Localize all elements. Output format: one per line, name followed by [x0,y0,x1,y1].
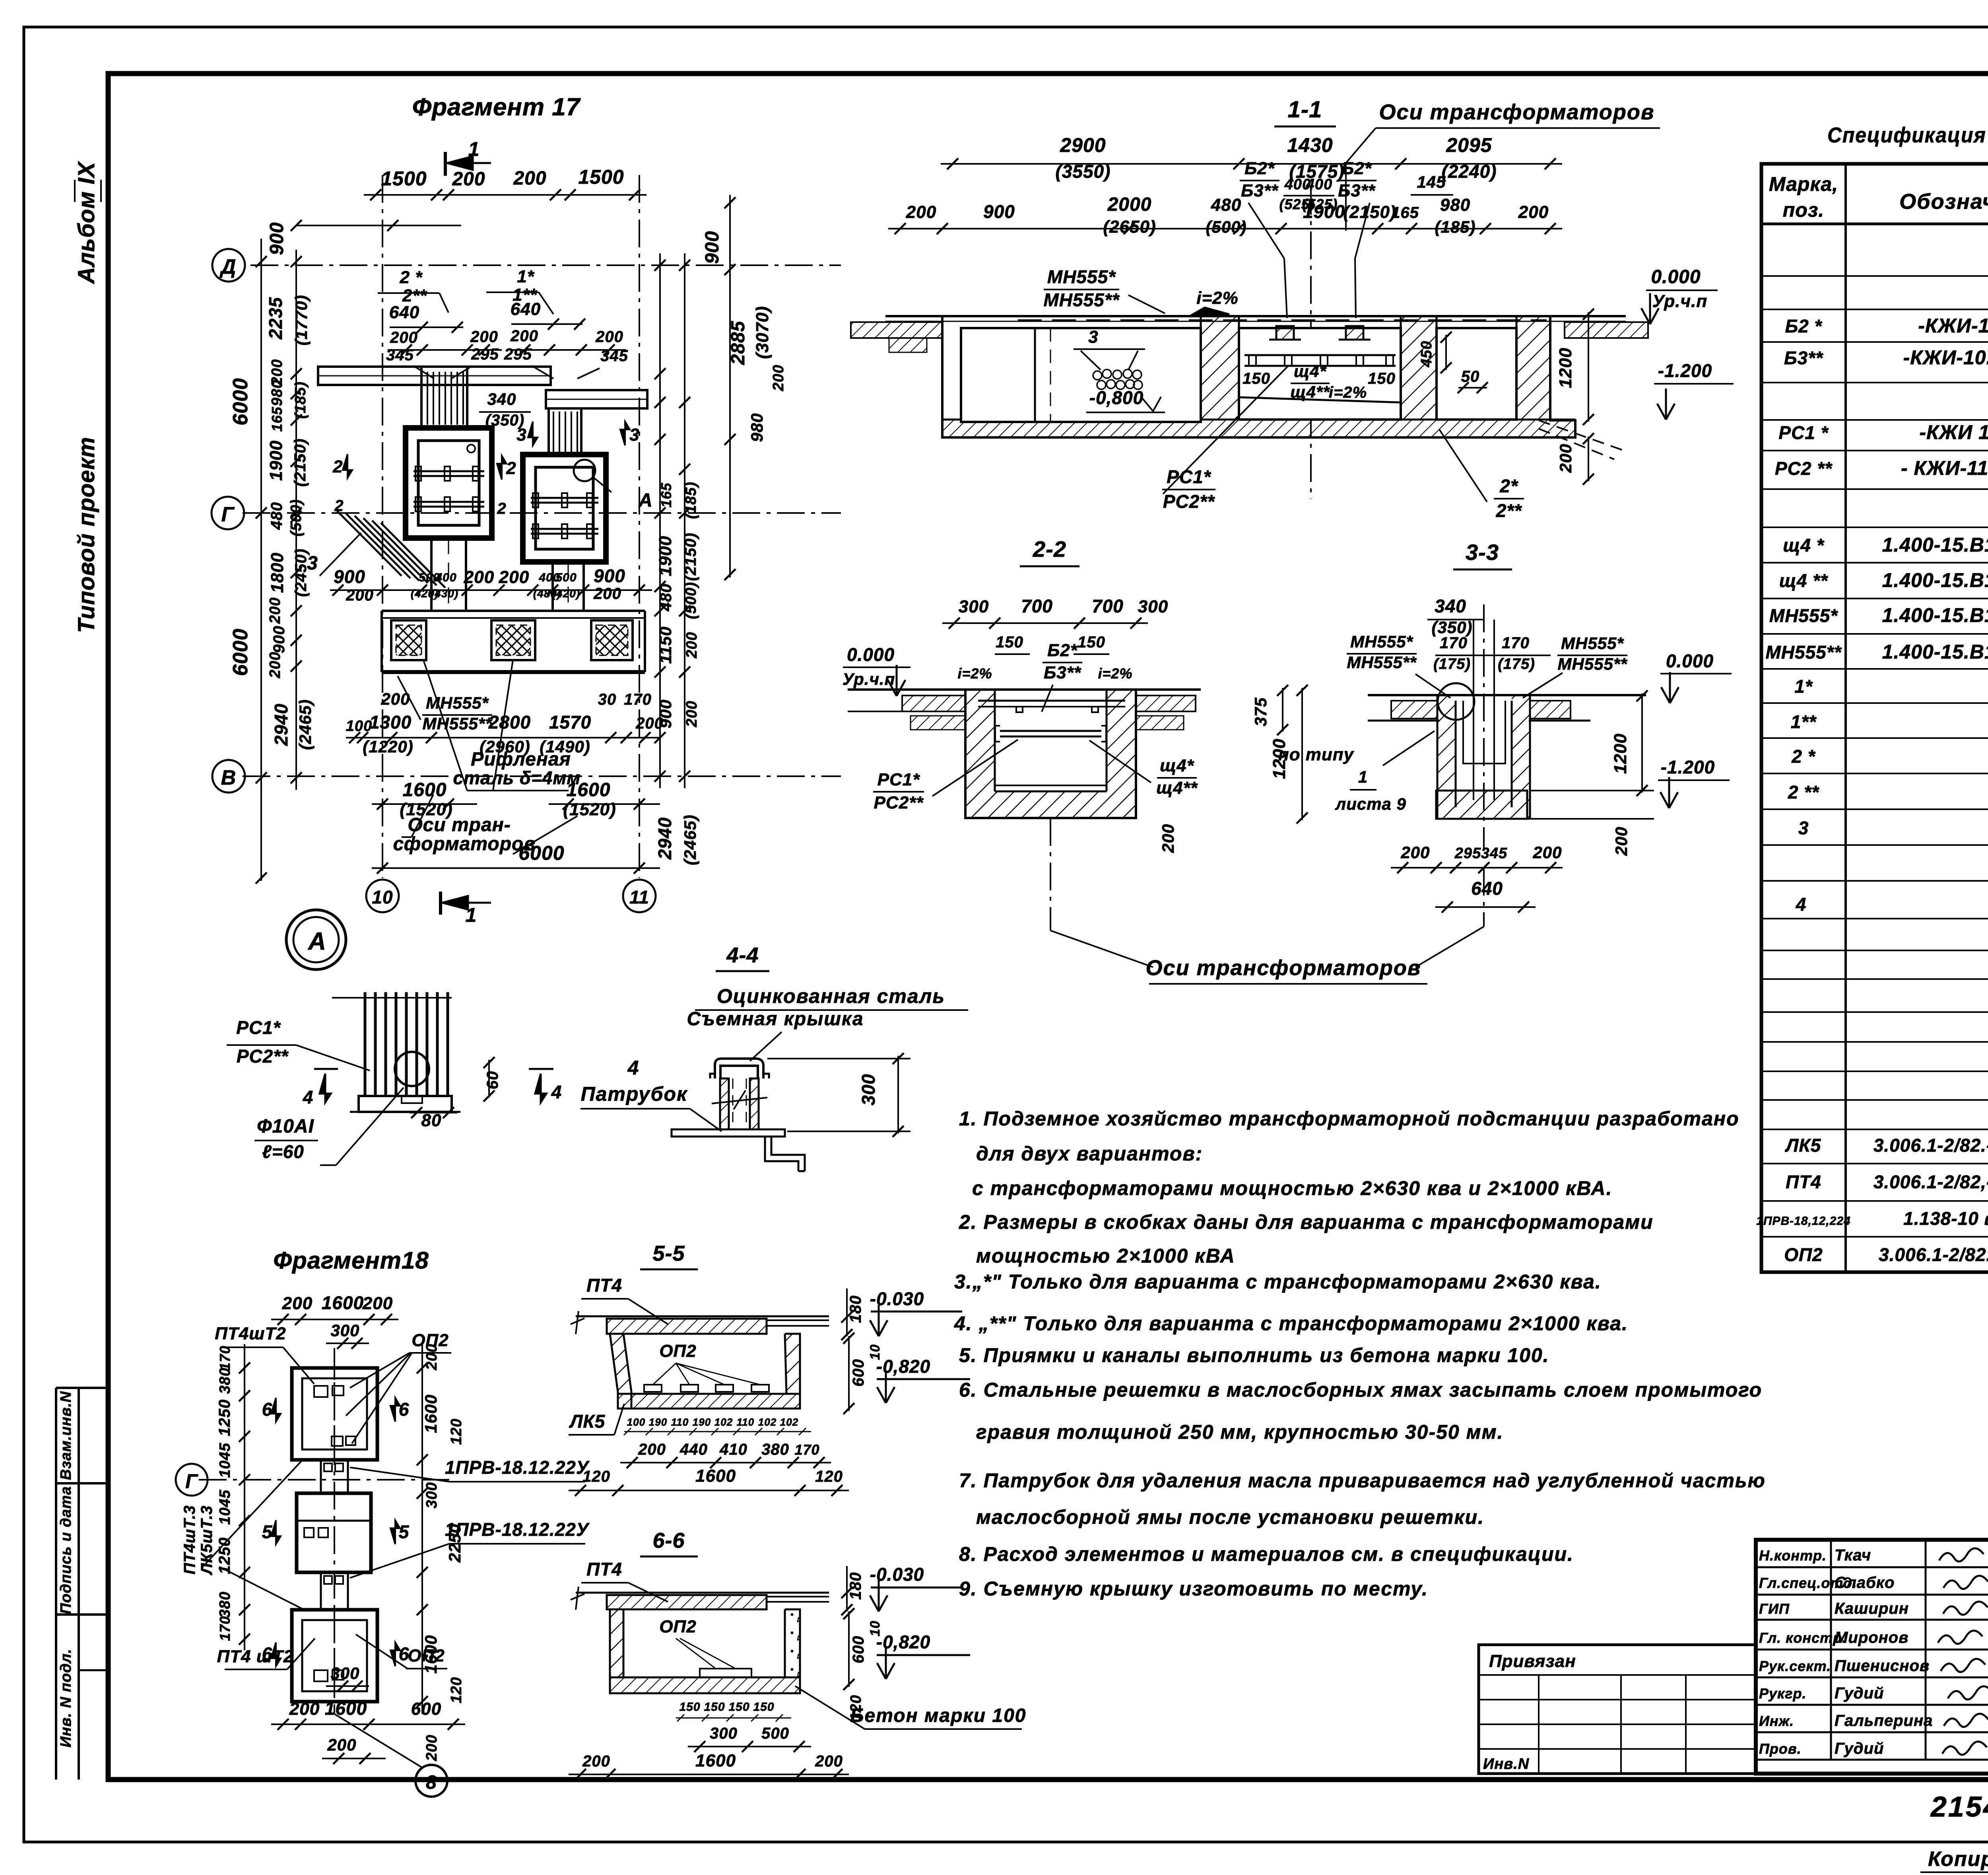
2-2 ground line [848,688,1201,691]
cap leader [750,1032,782,1061]
svg-text:4: 4 [1796,894,1807,915]
svg-text:200: 200 [1400,843,1430,862]
svg-text:ГИП: ГИП [1759,1601,1790,1617]
svg-text:4-4: 4-4 [726,943,759,967]
svg-text:МН555**: МН555** [1765,642,1842,663]
svg-text:1500: 1500 [578,166,624,188]
svg-text:щ4*: щ4* [1294,362,1327,381]
svg-text:1900: 1900 [266,440,286,481]
svg-text:Марка,: Марка, [1769,173,1838,195]
f18 square 2 middle [297,1493,371,1572]
lower channel 3 [430,538,433,611]
svg-text:Б3**: Б3** [1241,181,1279,200]
1-1 center pier hatch [1201,315,1239,420]
svg-text:200: 200 [1556,443,1575,473]
2-2 pavement hatches [902,696,966,711]
svg-text:i=2%: i=2% [957,665,992,682]
svg-text:(175): (175) [1498,656,1535,672]
svg-text:(2465): (2465) [296,699,315,750]
svg-text:ПТ4: ПТ4 [586,1559,622,1580]
1-1 central pit [1239,328,1401,420]
1-1 right pier hatch [1401,315,1437,420]
3-3 detail circle [1438,683,1474,720]
svg-text:(350): (350) [1431,618,1472,637]
svg-text:Г: Г [221,503,235,526]
svg-text:А: А [638,490,653,511]
svg-text:120: 120 [448,1677,465,1703]
channel 2 shaft [547,408,550,455]
svg-text:900: 900 [594,565,625,586]
svg-text:5. Приямки и каналы выполнить: 5. Приямки и каналы выполнить из бетона … [959,1344,1549,1366]
svg-text:2 *: 2 * [400,268,423,287]
svg-text:345: 345 [1481,845,1507,862]
svg-text:120: 120 [582,1468,610,1485]
svg-text:ЛК5: ЛК5 [569,1411,606,1432]
svg-text:6: 6 [262,1399,273,1420]
svg-text:Рукгр.: Рукгр. [1759,1685,1806,1702]
3-3 axis leader [1483,868,1485,927]
svg-text:1. Подземное хозяйство трансфо: 1. Подземное хозяйство трансформаторной … [959,1108,1739,1130]
svg-text:1250: 1250 [216,1399,233,1436]
svg-text:340: 340 [1435,596,1466,616]
svg-text:102: 102 [714,1416,733,1428]
svg-text:2000: 2000 [1107,194,1152,215]
svg-text:МН555*: МН555* [1047,266,1116,287]
svg-text:2: 2 [497,500,506,517]
svg-text:-КЖИ-10.00: -КЖИ-10.00 [1918,315,1988,337]
svg-text:щ4 **: щ4 ** [1779,570,1828,591]
svg-text:150: 150 [728,1700,749,1714]
f18 connector 2 [321,1572,348,1610]
svg-text:2: 2 [506,459,516,478]
1-1 bottom slab hatch [942,420,1575,437]
node A detail circle [286,910,346,970]
f18 connector 1 [321,1460,348,1493]
svg-text:(3550): (3550) [1056,161,1111,182]
svg-text:Копировал Полякова: Копировал Полякова [1928,1848,1988,1871]
svg-text:9. Съемную крышку изготовить: 9. Съемную крышку изготовить по месту. [959,1578,1428,1600]
left dimension chain lines [295,250,297,790]
svg-text:200: 200 [770,365,787,391]
cap middle break mark [712,1090,767,1109]
top wall band left [318,367,551,385]
6-6 top slab [607,1595,767,1609]
pit 1 outer wall [406,428,492,538]
svg-text:РС2**: РС2** [874,793,924,812]
svg-text:(1520): (1520) [400,800,452,819]
svg-text:0.000: 0.000 [847,644,895,665]
svg-text:Слабко: Слабко [1835,1574,1895,1591]
svg-text:(420): (420) [552,587,580,600]
svg-text:-1.200: -1.200 [1658,360,1712,381]
svg-text:200: 200 [1532,843,1562,862]
svg-text:-КЖИ-10.00-01: -КЖИ-10.00-01 [1903,346,1988,369]
svg-text:150: 150 [753,1700,774,1714]
svg-text:1**: 1** [1791,711,1817,732]
svg-text:1: 1 [1358,767,1368,786]
svg-text:200: 200 [282,1294,313,1313]
svg-text:200: 200 [423,1344,440,1370]
svg-text:щ4**: щ4** [1156,778,1198,798]
1-1 underground mass outline [942,316,1575,437]
svg-text:Обозначение: Обозначение [1899,190,1988,214]
svg-text:(525): (525) [1302,196,1338,212]
svg-text:Фрагмент18: Фрагмент18 [273,1247,429,1274]
svg-text:100: 100 [627,1416,645,1428]
top wall band right [546,390,647,408]
svg-text:РС2**: РС2** [1163,491,1215,512]
margin stamp table [55,1388,57,1780]
svg-text:180: 180 [847,1572,864,1600]
svg-text:3.006.1-2/82,-1-16,0-17: 3.006.1-2/82,-1-16,0-17 [1873,1172,1988,1192]
1-1 left pit interior [961,328,1201,422]
svg-text:300: 300 [330,1664,359,1683]
svg-text:(175): (175) [1433,656,1471,672]
axis V line [243,775,841,777]
svg-text:295: 295 [471,346,499,363]
svg-text:Фрагмент 17: Фрагмент 17 [412,93,581,121]
svg-text:Инв. N подл.: Инв. N подл. [58,1649,74,1747]
svg-text:900: 900 [270,626,288,653]
svg-text:1.400-15.В1.005-65: 1.400-15.В1.005-65 [1882,569,1988,591]
svg-text:Оси трансформаторов: Оси трансформаторов [1146,956,1421,980]
svg-text:700: 700 [1092,596,1124,616]
svg-text:3.006.1-2/82.-1-15,0-12: 3.006.1-2/82.-1-15,0-12 [1873,1135,1988,1156]
svg-text:2900: 2900 [1060,134,1106,156]
svg-text:11: 11 [629,887,649,907]
svg-text:30: 30 [598,691,617,708]
svg-text:640: 640 [511,299,541,319]
6-6 break mark and top line [571,1587,584,1610]
svg-text:Б3**: Б3** [1338,181,1376,200]
svg-text:ℓ=60: ℓ=60 [262,1141,304,1162]
svg-text:3.006.1-2/82.1-2-6.0-1: 3.006.1-2/82.1-2-6.0-1 [1879,1244,1988,1265]
svg-text:5: 5 [262,1521,273,1542]
axis 11 circle [623,880,656,912]
1-1 right pavement hatch [1565,322,1648,338]
upper dimension line 900 [296,225,461,226]
axis V circle [212,760,245,793]
svg-text:480: 480 [268,502,285,530]
svg-text:РС1 *: РС1 * [1778,422,1829,443]
svg-text:150: 150 [1077,633,1105,651]
svg-text:1600: 1600 [325,1698,367,1719]
svg-text:1600: 1600 [695,1466,736,1486]
svg-text:ПТ4: ПТ4 [586,1275,622,1296]
svg-text:4: 4 [303,1087,314,1108]
svg-text:4: 4 [627,1057,639,1079]
svg-text:380: 380 [217,1368,233,1394]
svg-text:Спецификация элементов, распол: Спецификация элементов, расположенных на… [1827,123,1988,147]
1-1 left pavement hatch [851,322,942,338]
5-5 pit walls [610,1334,631,1409]
svg-text:2: 2 [332,457,343,476]
svg-text:3: 3 [629,425,639,445]
svg-text:сформаторов: сформаторов [393,834,536,855]
channel 1 shaft [420,367,423,428]
svg-text:Каширин: Каширин [1835,1600,1909,1617]
svg-text:1.400-15.В1.550-06: 1.400-15.В1.550-06 [1882,641,1988,663]
svg-text:900: 900 [266,222,287,255]
svg-text:6: 6 [399,1399,410,1420]
svg-text:200: 200 [267,597,283,624]
svg-text:1430: 1430 [1287,134,1333,156]
section mark 1 top [444,152,447,176]
1-1 beams in pit [1276,326,1294,340]
svg-text:(185): (185) [292,381,309,419]
1-1 top dim chain row2 [888,228,1562,229]
svg-text:345: 345 [386,346,414,364]
svg-text:3: 3 [1088,327,1098,347]
svg-text:980: 980 [747,413,766,442]
svg-text:2095: 2095 [1446,134,1492,156]
svg-text:Миронов: Миронов [1835,1629,1908,1646]
svg-text:700: 700 [1021,596,1053,616]
1-1 center axis [1310,187,1312,499]
svg-text:500: 500 [555,571,577,584]
svg-text:980: 980 [1440,195,1470,215]
svg-text:-0,820: -0,820 [876,1356,930,1377]
svg-text:200: 200 [362,1294,393,1313]
svg-text:Взам.инв.N: Взам.инв.N [58,1391,74,1480]
5-5 pit floor [618,1394,800,1409]
1-1 right wall hatch [1516,315,1550,420]
2-2 grate lines [1000,730,1101,732]
svg-text:900: 900 [983,201,1015,222]
svg-text:120: 120 [815,1468,843,1485]
svg-text:3: 3 [516,425,526,445]
svg-text:1: 1 [468,138,480,160]
svg-text:(500): (500) [1206,218,1246,236]
svg-text:2800: 2800 [488,712,531,733]
svg-text:200: 200 [815,1753,843,1770]
svg-text:300: 300 [330,1321,359,1340]
svg-text:900: 900 [334,566,365,587]
svg-text:50: 50 [1461,368,1480,385]
svg-text:10: 10 [372,887,393,907]
svg-text:4. „**" Только для варианта с: 4. „**" Только для варианта с трансформа… [954,1312,1628,1335]
svg-text:190: 190 [693,1416,711,1428]
svg-text:295: 295 [504,346,532,363]
lower channel 4 [551,562,554,611]
svg-text:ПТ4шТ.3: ПТ4шТ.3 [181,1505,198,1574]
svg-text:150: 150 [679,1700,700,1714]
cap z-hook [765,1137,805,1171]
svg-text:440: 440 [679,1441,708,1458]
svg-text:6000: 6000 [518,842,564,864]
svg-text:400: 400 [1306,176,1332,193]
svg-text:с трансформаторами мощностью 2: с трансформаторами мощностью 2×630 ква и… [972,1177,1613,1199]
svg-text:1570: 1570 [549,712,591,733]
svg-text:гравия толщиной 250 мм, крупно: гравия толщиной 250 мм, крупностью 30-50… [976,1421,1504,1443]
svg-text:поз.: поз. [1783,199,1825,221]
svg-text:600: 600 [850,1359,867,1387]
privyazan columns [1538,1675,1540,1774]
svg-text:ОП2: ОП2 [659,1617,696,1636]
2-2 inner floor line [995,785,1107,786]
svg-text:4: 4 [551,1082,562,1102]
svg-text:1600: 1600 [322,1292,364,1313]
svg-text:Б2 *: Б2 * [1785,316,1823,336]
svg-text:60: 60 [484,1071,501,1090]
svg-text:МН555*: МН555* [1561,634,1624,653]
svg-text:200: 200 [423,1735,440,1761]
svg-text:В: В [221,766,237,789]
svg-text:1045: 1045 [217,1490,233,1525]
svg-text:ПТ4 шТ2: ПТ4 шТ2 [217,1647,294,1666]
svg-text:300: 300 [959,597,989,616]
svg-text:Б2*: Б2* [1244,159,1275,178]
svg-text:ЛК5шТ.3: ЛК5шТ.3 [198,1505,215,1575]
axis 11 line [639,175,640,878]
3-3 shaft walls [1437,695,1456,819]
svg-text:200: 200 [267,652,283,678]
svg-text:1ПРВ-18.12.22У: 1ПРВ-18.12.22У [445,1519,590,1540]
svg-text:1*: 1* [517,267,534,286]
signature table rows [1756,1566,1988,1568]
svg-text:i=2%: i=2% [1196,288,1239,308]
svg-text:345: 345 [600,347,628,365]
svg-text:170: 170 [217,1345,233,1370]
svg-text:ОП2: ОП2 [1784,1244,1823,1265]
svg-text:Гл. констр.: Гл. констр. [1759,1630,1846,1646]
svg-text:410: 410 [719,1441,747,1458]
svg-text:6000: 6000 [229,378,252,426]
svg-text:2940: 2940 [271,703,291,746]
svg-text:3: 3 [307,553,318,574]
svg-text:200: 200 [683,632,700,659]
oil grate square 1 [391,620,426,660]
svg-text:МН555**: МН555** [1347,653,1417,672]
grate detail bars [332,997,452,999]
svg-text:Пшениснов: Пшениснов [1835,1657,1930,1675]
5-5 top slab [607,1319,767,1334]
privyazan table box [1479,1645,1756,1774]
svg-text:щ4*: щ4* [1160,756,1194,775]
svg-text:Д: Д [219,255,237,278]
svg-text:Н.контр.: Н.контр. [1759,1547,1827,1564]
cap base plate [672,1129,785,1137]
svg-text:600: 600 [411,1699,441,1719]
svg-text:200: 200 [582,1753,610,1770]
svg-text:Ур.ч.п: Ур.ч.п [1652,291,1708,311]
svg-text:150: 150 [996,633,1023,651]
svg-text:640: 640 [1471,878,1503,899]
svg-text:170: 170 [217,1616,233,1641]
svg-text:200: 200 [464,567,494,587]
svg-text:(1520): (1520) [563,800,616,819]
svg-text:2. Размеры в скобках даны для: 2. Размеры в скобках даны для варианта с… [959,1211,1654,1233]
svg-text:180: 180 [847,1295,864,1323]
svg-text:-КЖИ 11.00: -КЖИ 11.00 [1919,421,1988,443]
svg-text:450: 450 [1418,341,1435,367]
svg-text:щ4 *: щ4 * [1783,535,1824,556]
svg-text:Ур.ч.п: Ур.ч.п [843,670,895,688]
svg-text:200: 200 [346,587,374,604]
svg-text:3: 3 [1798,818,1809,838]
svg-text:i=2%: i=2% [1329,384,1367,401]
oil grate square 3 [591,620,633,660]
svg-text:380: 380 [217,1591,233,1618]
axis 10 line [382,175,383,878]
svg-text:165: 165 [269,406,285,431]
2-2 axis leader [1050,818,1051,931]
svg-text:300: 300 [710,1725,738,1742]
svg-text:щ4**: щ4** [1290,383,1330,401]
svg-text:110: 110 [671,1416,689,1428]
svg-text:6. Стальные решетки в маслосбо: 6. Стальные решетки в маслосборных ямах … [959,1379,1762,1401]
3-3 ground line [1368,694,1646,696]
svg-text:1300: 1300 [369,712,412,733]
svg-text:Съемная крышка: Съемная крышка [687,1008,864,1030]
svg-text:3.„*" Только для варианта с тр: 3.„*" Только для варианта с трансформато… [954,1271,1602,1293]
svg-text:МН555**: МН555** [1043,290,1120,310]
axis 10 circle [366,880,399,912]
svg-text:6000: 6000 [229,628,252,676]
svg-text:2 **: 2 ** [1788,782,1819,802]
svg-text:2885: 2885 [728,321,749,365]
svg-text:1.400-15.В1.005-65: 1.400-15.В1.005-65 [1882,534,1988,556]
svg-text:200: 200 [510,327,538,345]
svg-text:2235: 2235 [265,297,286,340]
svg-text:(2650): (2650) [1103,217,1156,237]
svg-text:380: 380 [761,1441,789,1458]
svg-text:Б3**: Б3** [1784,348,1823,368]
svg-text:Патрубок: Патрубок [581,1083,688,1105]
svg-text:1ПРВ-18.12.22У: 1ПРВ-18.12.22У [445,1457,590,1478]
3-3 bottom block [1436,791,1527,819]
svg-text:РС2**: РС2** [237,1046,289,1067]
right dimension chain lines [659,253,661,788]
svg-text:200: 200 [635,715,664,732]
svg-text:0.000: 0.000 [1666,651,1714,671]
pit 2 detail mark A [574,460,595,481]
f18 square 3 [292,1610,377,1702]
section mark 4 right [529,1068,553,1070]
svg-text:640: 640 [389,303,419,322]
svg-text:400: 400 [435,571,456,584]
svg-text:1600: 1600 [567,779,611,801]
grate detail base [359,1096,452,1112]
svg-text:1.400-15.В1.550-06: 1.400-15.В1.550-06 [1882,604,1988,626]
svg-text:600: 600 [850,1636,867,1663]
svg-text:Оси трансформаторов: Оси трансформаторов [1379,100,1655,124]
axis D circle [212,249,245,282]
svg-text:i=2%: i=2% [1098,665,1132,682]
svg-text:8. Расход элементов и материа: 8. Расход элементов и материалов см. в с… [959,1543,1574,1565]
svg-text:300: 300 [1138,597,1168,616]
svg-text:1600: 1600 [695,1751,736,1770]
3-3 shaft pipes [1473,620,1474,800]
1-1 right pit [1437,328,1516,420]
svg-text:5: 5 [399,1521,410,1542]
svg-text:РС1*: РС1* [236,1017,281,1038]
section mark 1 bottom [439,892,442,915]
svg-text:340: 340 [487,390,516,408]
svg-text:2940: 2940 [654,817,675,860]
svg-text:МН555**: МН555** [1557,655,1627,673]
svg-text:РС2 **: РС2 ** [1775,458,1833,479]
svg-text:1-1: 1-1 [1288,97,1322,122]
svg-text:5-5: 5-5 [652,1242,685,1265]
svg-text:200: 200 [390,329,418,346]
svg-text:МН555*: МН555* [1350,632,1413,651]
svg-text:1: 1 [466,904,477,926]
svg-text:1045: 1045 [217,1443,233,1478]
svg-text:21549-09 28: 21549-09 28 [1930,1791,1988,1823]
1-1 rails in pit [1244,354,1396,356]
svg-text:200: 200 [638,1441,666,1458]
